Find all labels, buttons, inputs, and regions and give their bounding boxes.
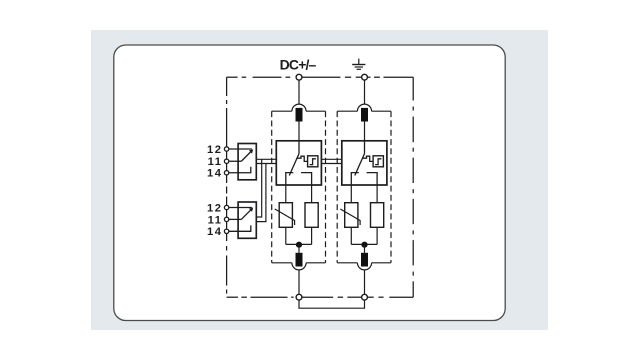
- label 14 upper: [207, 168, 223, 180]
- terminal DC+/-: [296, 74, 302, 80]
- series protection element module 1: [305, 203, 318, 228]
- terminal earth: [362, 74, 368, 80]
- wire disconnector to varistor module 2: [350, 185, 352, 203]
- gray background band: [91, 30, 548, 330]
- wire disconnector to varistor module 1: [285, 185, 287, 203]
- wire junction to bottom plug module 1: [298, 244, 300, 252]
- thermal disconnector switch box module 1: [276, 141, 321, 185]
- disconnector internals module 2: [351, 141, 377, 185]
- svg-text:11: 11: [208, 156, 223, 168]
- contact S1 internals: [229, 149, 254, 173]
- wire earth terminal to module 2 plug: [364, 80, 366, 104]
- terminal 12 upper: [224, 147, 228, 151]
- plug-in contact blade module 1 top: [296, 108, 303, 122]
- varistor module 2: [340, 203, 360, 228]
- wire DC+/- terminal to module 1 plug: [298, 80, 300, 104]
- signalling branch wires to S2: [256, 159, 266, 221]
- plug-in contact blade module 2 top: [361, 108, 368, 122]
- svg-text:14: 14: [207, 168, 223, 180]
- plug-in contact blade module 2 bottom: [361, 253, 368, 267]
- series protection element module 2: [371, 203, 384, 228]
- svg-text:12: 12: [207, 202, 223, 214]
- contact S2 internals: [229, 208, 254, 232]
- disconnector internals module 1: [286, 141, 312, 185]
- terminal bottom left: [296, 294, 302, 300]
- terminal 12 lower: [224, 205, 228, 209]
- varistor module 1: [275, 203, 295, 228]
- temperature sensor module 1: [308, 156, 318, 167]
- wire plug to disconnector module 2: [364, 122, 366, 141]
- external bonding wire between bottom terminals: [299, 300, 365, 308]
- label 12 lower: [207, 202, 223, 214]
- wire junction to bottom plug module 2: [364, 244, 366, 252]
- wire plug to disconnector module 1: [298, 122, 300, 141]
- junction node module 2: [361, 242, 367, 248]
- label 12 upper: [207, 144, 223, 156]
- label 11 upper: [208, 156, 223, 168]
- svg-text:11: 11: [208, 214, 223, 226]
- remote signalling contact S2 box: [238, 202, 256, 238]
- wires joining branches module 1: [286, 227, 312, 244]
- wire disconnector to series element module 1: [311, 185, 313, 203]
- terminal 11 lower: [224, 217, 228, 221]
- label 11 lower: [208, 214, 223, 226]
- plug-in contact socket arc module 1 bottom: [292, 263, 306, 270]
- svg-text:DC+/–: DC+/–: [280, 57, 317, 73]
- plug-in contact socket arc module 1 top: [292, 104, 306, 111]
- terminal 11 upper: [224, 159, 228, 163]
- label 14 lower: [207, 226, 223, 238]
- signalling linkage wires module 1 to module 2: [321, 159, 341, 163]
- plug-in contact socket arc module 2 bottom: [357, 263, 371, 270]
- enclosure boundary (dash-dot): [227, 77, 414, 297]
- terminal 14 upper: [224, 171, 228, 175]
- module 2 dashed outline: [337, 111, 391, 263]
- terminal 14 lower: [224, 229, 228, 233]
- wire disconnector to series element module 2: [376, 185, 378, 203]
- earth ground symbol: [352, 59, 365, 70]
- plug-in contact blade module 1 bottom: [296, 253, 303, 267]
- wire module 1 to bottom terminal: [298, 270, 300, 294]
- wire module 2 to bottom terminal: [364, 270, 366, 294]
- temperature sensor module 2: [373, 156, 383, 167]
- svg-text:14: 14: [207, 226, 223, 238]
- plug-in contact socket arc module 2 top: [357, 104, 371, 111]
- svg-text:12: 12: [207, 144, 223, 156]
- wires joining branches module 2: [351, 227, 377, 244]
- junction node module 1: [296, 242, 302, 248]
- signalling linkage wires S1 to module 1: [256, 159, 276, 163]
- terminal bottom right: [362, 294, 368, 300]
- remote signalling contact S1 box: [238, 144, 256, 180]
- thermal disconnector switch box module 2: [342, 141, 387, 185]
- white rounded panel: [114, 45, 505, 321]
- node label DC+/-: [280, 57, 317, 73]
- module 1 dashed outline: [272, 111, 326, 263]
